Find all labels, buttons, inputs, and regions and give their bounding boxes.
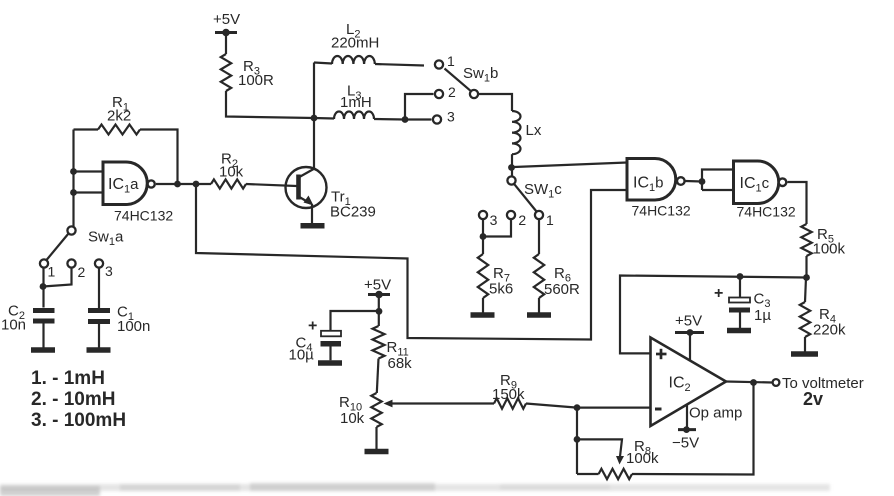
capacitor C1 (88, 304, 150, 336)
legend line 2 (31, 389, 115, 410)
wire tie 1-2 (43, 268, 72, 287)
wire Lx to IC1b input (514, 163, 627, 168)
+5V supply terminal (IC2) (675, 313, 704, 336)
capacitor C3 (714, 285, 771, 324)
resistor R2 (211, 151, 246, 189)
ground (31, 347, 55, 353)
svg-text:−5V: −5V (672, 435, 699, 452)
wire (482, 219, 484, 254)
wire (805, 278, 806, 303)
node R8 wiper junction (574, 436, 581, 443)
output terminal (773, 379, 780, 386)
wire (74, 128, 99, 130)
wire L2 to contact 1 (375, 64, 424, 66)
wire tie 3-2 (483, 219, 511, 237)
resistor R6 (534, 254, 580, 298)
svg-text:74HC132: 74HC132 (737, 204, 796, 220)
svg-text:1: 1 (447, 53, 455, 69)
svg-text:+: + (714, 285, 723, 302)
wire (739, 313, 741, 329)
svg-text:Sw1a: Sw1a (88, 229, 124, 249)
+5V supply terminal (R11) (364, 277, 391, 299)
wire (246, 184, 297, 186)
wire (74, 191, 104, 193)
wire emitter (311, 204, 313, 223)
svg-text:1: 1 (48, 264, 56, 280)
node minus junction (574, 404, 581, 411)
svg-text:74HC132: 74HC132 (114, 208, 173, 224)
inductor L2 (314, 21, 379, 64)
svg-text:Sw1b: Sw1b (463, 65, 498, 85)
svg-text:1mH: 1mH (340, 94, 372, 111)
node R5-R4 junction (803, 274, 810, 281)
wire (804, 337, 806, 352)
wire top bus (620, 276, 807, 354)
wire (329, 347, 331, 361)
inductor L3 (314, 83, 374, 120)
wire (686, 405, 688, 429)
wire (805, 256, 807, 278)
svg-text:2: 2 (78, 264, 86, 280)
capacitor C2 (1, 303, 55, 334)
svg-text:IC1a: IC1a (108, 176, 139, 196)
node IC1b out (699, 178, 706, 185)
svg-text:100k: 100k (813, 241, 846, 258)
resistor R10 (preset) (339, 393, 382, 427)
switch SW1c common (507, 176, 562, 200)
wire (156, 183, 211, 185)
svg-text:2v: 2v (803, 389, 823, 409)
node output junction (750, 379, 757, 386)
switch Sw1a contact 3 (95, 259, 113, 279)
svg-text:3. - 100mH: 3. - 100mH (31, 410, 126, 431)
nand gate IC1c (734, 161, 796, 220)
svg-text:10n: 10n (1, 317, 26, 334)
resistor R11 (373, 326, 413, 372)
inductor Lx (512, 111, 542, 154)
svg-text:+5V: +5V (675, 313, 702, 330)
node C3 junction (737, 273, 744, 280)
wire input bus (72, 130, 74, 227)
resistor R3 (221, 54, 274, 91)
legend line 1 (31, 368, 105, 389)
svg-text:1µ: 1µ (754, 307, 771, 324)
-5V supply terminal (IC2) (672, 426, 699, 451)
wire (702, 170, 734, 191)
svg-text:3: 3 (447, 109, 455, 125)
wire (378, 296, 380, 326)
wire (538, 219, 540, 254)
wire (689, 334, 691, 361)
svg-text:68k: 68k (388, 355, 413, 372)
legend line 3 (31, 410, 126, 431)
ground (791, 351, 818, 357)
switch Sw1b contact 3 (433, 109, 455, 125)
wire (739, 277, 741, 298)
wire tie 2-3 (405, 94, 434, 120)
svg-text:3: 3 (490, 212, 498, 228)
switch SW1c contact 3 (479, 211, 498, 228)
ground (365, 449, 389, 455)
svg-text:3: 3 (105, 263, 113, 279)
svg-text:1: 1 (546, 212, 554, 228)
wire (42, 324, 44, 348)
wire (375, 427, 377, 449)
wire (576, 408, 578, 474)
resistor R5 (801, 224, 845, 258)
node collector junction (311, 115, 318, 122)
resistor R7 (478, 254, 513, 298)
svg-text:IC1b: IC1b (633, 175, 663, 195)
svg-text:2: 2 (518, 212, 526, 228)
svg-text:10k: 10k (340, 410, 365, 427)
svg-text:10µ: 10µ (289, 347, 315, 364)
node C2 junction (40, 283, 47, 290)
resistor R1 (98, 94, 140, 135)
wire (374, 118, 405, 121)
ground (301, 223, 325, 229)
capacitor C4 (289, 318, 342, 364)
svg-text:5k6: 5k6 (489, 281, 513, 298)
wire (331, 311, 380, 330)
nand gate IC1b (627, 159, 691, 219)
wire (538, 298, 540, 313)
resistor R8 (preset) (599, 438, 659, 479)
svg-text:220mH: 220mH (331, 35, 379, 52)
wire (478, 94, 512, 111)
switch Sw1a lever (47, 234, 69, 261)
svg-text:100R: 100R (238, 72, 274, 89)
wire (577, 407, 651, 409)
wire (632, 383, 754, 475)
wire feedback run (196, 184, 627, 340)
resistor R4 (800, 302, 846, 339)
svg-text:2: 2 (448, 84, 456, 100)
R8 wiper arm (577, 439, 624, 464)
wire (577, 473, 599, 475)
node C4 junction (376, 308, 383, 315)
switch Sw1b contact 2 (435, 84, 456, 100)
switch Sw1a contact 1 (40, 259, 56, 279)
node IC1a out j1 (174, 181, 181, 188)
wire (686, 180, 703, 183)
wire (511, 154, 513, 176)
wire (42, 268, 44, 308)
svg-text:Op amp: Op amp (689, 405, 742, 422)
svg-text:100k: 100k (626, 450, 659, 467)
svg-text:+5V: +5V (213, 11, 240, 28)
+5V supply terminal (R3) (213, 11, 240, 36)
switch Sw1a contact 2 (67, 259, 85, 280)
wire (98, 268, 100, 309)
node IC1a out j2 (193, 181, 200, 188)
wire (98, 324, 100, 348)
svg-text:SW1c: SW1c (524, 181, 562, 201)
switch SW1c contact 1 (535, 211, 554, 228)
svg-text:2k2: 2k2 (107, 108, 131, 125)
node input B (70, 189, 77, 196)
svg-text:Lx: Lx (526, 122, 542, 139)
svg-text:74HC132: 74HC132 (632, 203, 691, 219)
resistor R9 (492, 372, 526, 409)
ground (727, 328, 751, 334)
wire (702, 189, 734, 191)
node L3 junction (402, 116, 409, 123)
ground (527, 312, 551, 318)
ground (318, 360, 342, 366)
switch Sw1a common (67, 226, 124, 248)
op-amp U IC2 (651, 338, 743, 427)
wire (377, 359, 379, 394)
wire (482, 298, 484, 313)
node Lx junction (508, 164, 515, 171)
switch Sw1b lever (445, 69, 472, 92)
switch Sw1b contact 1 (435, 53, 455, 69)
nand gate IC1a (103, 162, 173, 224)
svg-text:IC1c: IC1c (740, 175, 770, 195)
svg-text:+5V: +5V (364, 277, 391, 294)
wire (526, 404, 577, 408)
wire (140, 130, 178, 185)
node input A (70, 168, 77, 175)
wire output (726, 382, 772, 383)
switch SW1c lever (514, 184, 537, 212)
svg-text:+: + (308, 318, 317, 335)
ground (87, 347, 111, 353)
wire (74, 170, 104, 172)
svg-text:1. - 1mH: 1. - 1mH (31, 368, 105, 389)
svg-text:BC239: BC239 (330, 204, 376, 221)
wire (225, 35, 227, 54)
label to voltmeter (782, 375, 864, 409)
svg-text:2. - 10mH: 2. - 10mH (31, 389, 115, 410)
R10 wiper arrow (384, 400, 393, 408)
wire (391, 402, 494, 404)
switch SW1c contact 2 (507, 211, 527, 228)
node SW1c tie junction (480, 233, 487, 240)
wire (226, 91, 314, 118)
svg-text:220k: 220k (813, 322, 846, 339)
wire collector riser (313, 63, 315, 169)
wire (788, 182, 807, 224)
svg-text:100n: 100n (117, 318, 150, 335)
transistor Q Tr1 (286, 167, 376, 221)
scan artifact band (0, 483, 830, 496)
switch Sw1b common (463, 65, 498, 98)
svg-text:560R: 560R (544, 281, 580, 298)
svg-text:150k: 150k (492, 386, 525, 403)
svg-text:10k: 10k (219, 164, 244, 181)
ground (471, 312, 495, 318)
